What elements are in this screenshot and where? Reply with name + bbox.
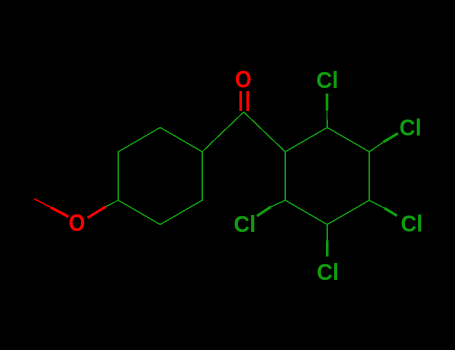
- bond C5'-Cl bottom (thin half): [326, 225, 328, 241]
- bond C4'-Cl lower right (thick half): [384, 208, 397, 216]
- svg-text:Cl: Cl: [316, 67, 338, 93]
- svg-text:Cl: Cl: [399, 114, 421, 140]
- bond C2'-Cl top (thick half): [326, 94, 329, 111]
- C=O double bond (red): [239, 91, 242, 111]
- left benzene ring (4-methoxyphenyl): [118, 128, 202, 225]
- bond C5'-Cl bottom (thick half): [326, 241, 329, 257]
- bond C3'-Cl upper right (thin half): [369, 142, 383, 152]
- svg-text:Cl: Cl: [317, 259, 339, 285]
- svg-text:Cl: Cl: [401, 210, 423, 236]
- svg-text:Cl: Cl: [234, 211, 256, 237]
- bond C6'-Cl left (thick half): [257, 207, 271, 216]
- bond ring C4 to methoxy O (thin green half): [106, 200, 118, 206]
- bond C3'-Cl upper right (thick half): [384, 133, 399, 142]
- svg-text:O: O: [235, 66, 252, 93]
- bond C6'-Cl left (thin half): [271, 200, 285, 207]
- wire: carbonyl C to left ring C1: [202, 112, 244, 152]
- right benzene ring (pentachlorophenyl): [285, 128, 369, 225]
- wire: carbonyl C to right ring C1': [244, 112, 286, 152]
- bond O to CH3 (thin tail): [34, 199, 51, 208]
- bond C4'-Cl lower right (thin half): [369, 200, 384, 208]
- bond ring C4 to methoxy O (thick red half): [88, 207, 107, 218]
- bond O to CH3 (thick red half): [51, 207, 69, 217]
- svg-text:O: O: [69, 210, 86, 237]
- bond C2'-Cl top (thin half): [326, 111, 328, 128]
